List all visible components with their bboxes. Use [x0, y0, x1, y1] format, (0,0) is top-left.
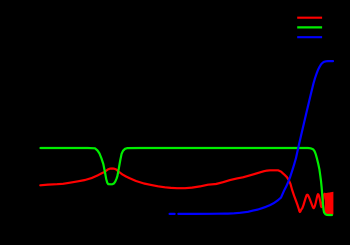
blue curve (absorbance trace rising to plateau) — [178, 61, 333, 214]
red curve (reflectance trace with chirped oscillation) — [40, 169, 325, 213]
legend swatch: red (line 1) — [297, 17, 322, 19]
legend swatch: green (line 2) — [297, 26, 322, 28]
blue curve left dash segment — [170, 213, 175, 215]
red solid blob (unresolved fast oscillation) — [325, 192, 333, 214]
legend swatch: blue (line 3) — [297, 36, 322, 38]
green curve (transmittance trace with notch and cutoff) — [41, 148, 332, 215]
